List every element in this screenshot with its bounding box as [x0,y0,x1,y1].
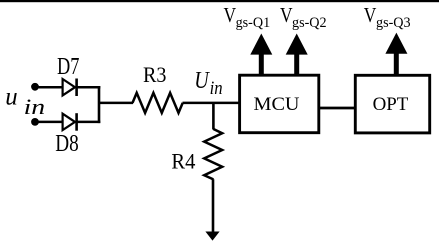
wire MCU to OPT [319,107,355,110]
svg-text:in: in [210,78,223,99]
block OPT [355,75,429,133]
svg-text:gs-Q2: gs-Q2 [292,15,327,31]
svg-text:D8: D8 [55,131,78,157]
svg-text:gs-Q1: gs-Q1 [236,15,271,31]
svg-text:OPT: OPT [373,94,409,115]
node u_in negative terminal [31,118,39,126]
wire R3 to node Uin and MCU input [183,102,240,105]
svg-text:U: U [194,68,210,94]
resistor R4 [204,129,222,179]
diode D7 [63,79,77,97]
node label U_in [194,68,222,99]
wire u_in- to D8 anode [35,121,63,124]
svg-text:V: V [364,4,377,27]
gate drive arrow V_gs-Q2 [286,34,308,77]
source label u_in [5,83,45,119]
svg-text:in: in [24,95,45,119]
gate drive arrow V_gs-Q3 [385,33,407,76]
svg-text:gs-Q3: gs-Q3 [376,15,411,31]
label V_gs-Q3 [364,4,411,31]
wire node Uin down to R4 [212,103,215,130]
svg-text:MCU: MCU [254,94,300,115]
node u_in positive terminal [31,83,39,91]
wire D8 cathode to bus [77,121,101,124]
ground arrow [205,232,219,241]
wire bus to R3 [99,102,133,105]
resistor R3 [133,93,183,113]
wire u_in+ to D7 anode [35,86,63,89]
wire rectifier output bus [98,86,101,123]
svg-text:u: u [5,83,17,110]
svg-text:D7: D7 [57,54,79,80]
diode D8 [63,113,77,131]
label V_gs-Q1 [224,4,271,31]
block MCU [240,75,319,133]
wire D7 cathode to bus [77,86,101,89]
gate drive arrow V_gs-Q1 [250,34,272,77]
svg-text:V: V [224,4,237,27]
svg-text:V: V [280,4,293,27]
svg-text:R3: R3 [143,63,167,87]
label V_gs-Q2 [280,4,327,31]
wire R4 to ground [212,179,215,232]
svg-text:R4: R4 [171,149,195,173]
